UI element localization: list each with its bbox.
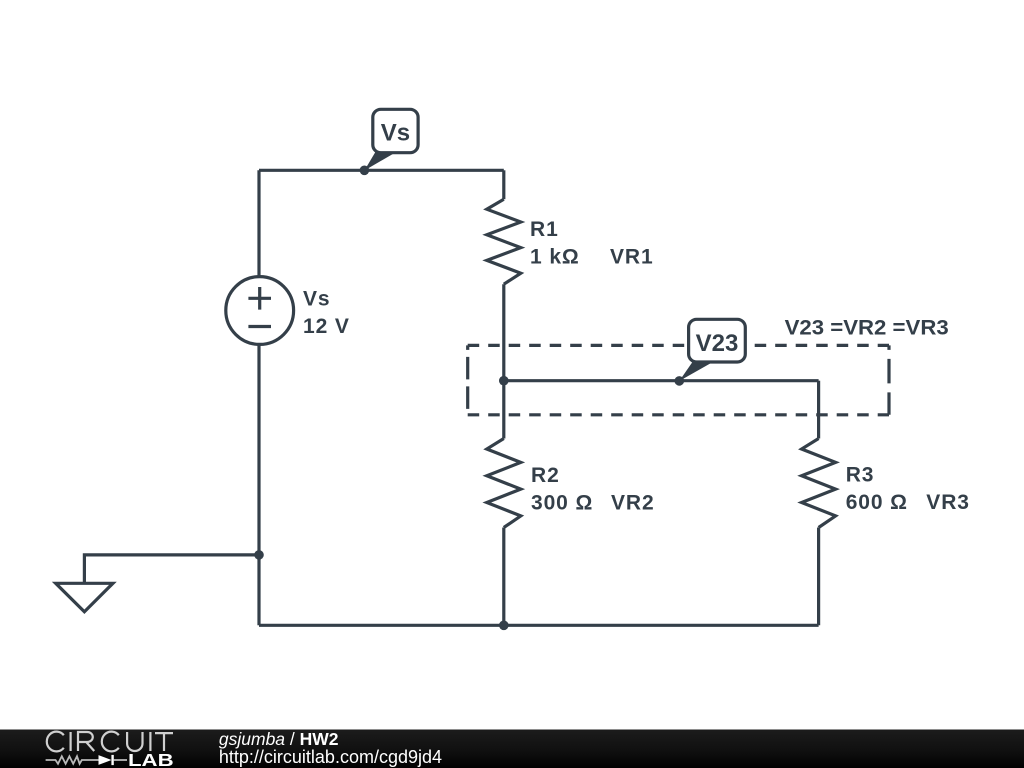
- svg-text:R2: R2: [531, 464, 560, 487]
- svg-text:LAB: LAB: [128, 750, 174, 768]
- resistor R3: [817, 381, 820, 439]
- callout Vs box: [373, 109, 418, 152]
- callout V23 box: [689, 319, 746, 362]
- svg-text:R3: R3: [846, 464, 875, 487]
- wire top rail: [259, 169, 504, 172]
- node dot bottom junction: [499, 621, 509, 631]
- svg-text:VR3: VR3: [926, 491, 970, 514]
- wire left rail upper: [257, 170, 260, 275]
- svg-text:VR2: VR2: [611, 492, 655, 515]
- resistor R2: [502, 381, 505, 439]
- minus sign: [248, 325, 271, 328]
- dashed measurement box V23: [468, 344, 889, 347]
- voltage source V1 circle: [226, 277, 294, 345]
- svg-text:12 V: 12 V: [303, 315, 350, 338]
- svg-text:VR1: VR1: [610, 246, 654, 269]
- node dot ground junction: [254, 550, 264, 560]
- svg-text:V23: V23: [696, 330, 739, 357]
- plus sign: [248, 287, 271, 310]
- svg-text:Vs: Vs: [303, 288, 331, 311]
- logo diode: [99, 755, 112, 765]
- svg-text:V23 =VR2 =VR3: V23 =VR2 =VR3: [785, 317, 949, 340]
- svg-text:600 Ω: 600 Ω: [846, 491, 908, 514]
- resistor R1: [502, 170, 505, 199]
- ground symbol: [56, 583, 113, 611]
- svg-text:300 Ω: 300 Ω: [531, 492, 593, 515]
- callout Vs tail: [364, 151, 398, 171]
- logo CIRCUIT letters: [47, 732, 173, 752]
- wire mid horizontal: [504, 379, 819, 382]
- wire bottom rail: [259, 624, 819, 627]
- svg-text:http://circuitlab.com/cgd9jd4: http://circuitlab.com/cgd9jd4: [219, 747, 442, 767]
- svg-text:Vs: Vs: [381, 120, 410, 147]
- node dot mid junction: [499, 376, 509, 386]
- node dot top (Vs tap): [360, 166, 370, 176]
- node dot V23 tap: [675, 376, 685, 386]
- logo squiggle wire: [46, 756, 99, 764]
- callout V23 tail: [679, 361, 715, 382]
- svg-text:1 kΩ: 1 kΩ: [530, 246, 580, 269]
- wire ground stub: [84, 555, 259, 583]
- wire left rail lower: [257, 345, 260, 625]
- svg-text:R1: R1: [530, 218, 559, 241]
